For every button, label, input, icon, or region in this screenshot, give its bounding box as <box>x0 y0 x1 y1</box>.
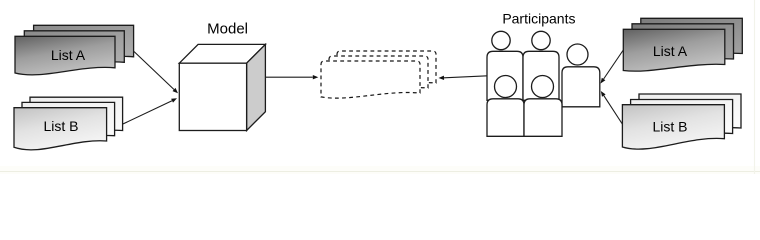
svg-text:List A: List A <box>51 47 86 63</box>
arrow: List A (right) to Participants <box>601 50 624 84</box>
svg-text:List B: List B <box>652 119 687 135</box>
arrow: List A (left) to Model cube <box>134 52 178 94</box>
canvas edge lines <box>0 0 760 174</box>
participants: person right <box>562 44 600 107</box>
participants: person back-right <box>523 31 559 100</box>
3D cube Model <box>179 44 265 130</box>
stacked documents "List A" (right) <box>623 18 742 71</box>
arrow: Model cube to dashed documents <box>266 75 319 79</box>
svg-text:List B: List B <box>43 118 78 134</box>
svg-text:Model: Model <box>207 21 248 38</box>
arrow: List B (left) to Model cube <box>122 98 177 124</box>
arrow: Participants to dashed documents <box>439 76 488 80</box>
arrow: List B (right) to Participants <box>601 91 623 124</box>
participants: person back-left <box>487 31 523 100</box>
participants: person front-left <box>487 76 524 137</box>
svg-text:List A: List A <box>653 43 688 59</box>
dashed stacked documents (output) <box>321 51 436 98</box>
svg-text:Participants: Participants <box>502 11 575 27</box>
stacked documents "List B" (left) <box>14 97 123 150</box>
stacked documents "List A" (left) <box>15 25 134 75</box>
participants: person front-right <box>524 76 562 137</box>
stacked documents "List B" (right) <box>622 94 741 149</box>
